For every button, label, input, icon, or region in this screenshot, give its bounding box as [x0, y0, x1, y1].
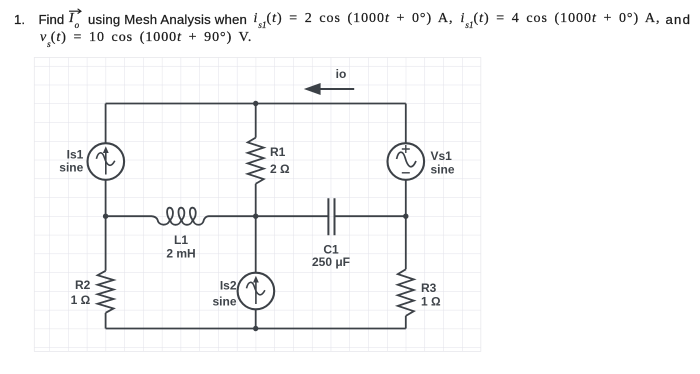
svg-text:L1: L1 [174, 233, 188, 247]
svg-text:250 μF: 250 μF [312, 255, 350, 269]
svg-text:Is2: Is2 [220, 279, 237, 293]
svg-text:sine: sine [212, 295, 236, 309]
svg-text:R1: R1 [270, 145, 286, 159]
svg-text:io: io [336, 67, 347, 81]
svg-text:2 mH: 2 mH [166, 247, 195, 261]
svg-text:1 Ω: 1 Ω [421, 295, 441, 309]
svg-text:sine: sine [59, 160, 83, 174]
svg-text:Vs1: Vs1 [431, 149, 453, 163]
svg-text:sine: sine [431, 163, 455, 177]
svg-text:R2: R2 [75, 278, 91, 292]
svg-text:R3: R3 [421, 281, 437, 295]
svg-text:1 Ω: 1 Ω [71, 293, 91, 307]
svg-text:2 Ω: 2 Ω [270, 162, 290, 176]
